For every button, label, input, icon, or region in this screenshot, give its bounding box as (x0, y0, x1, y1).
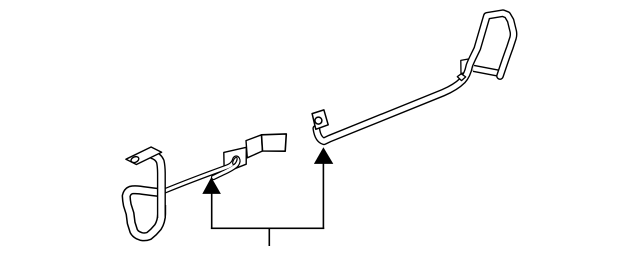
left arrow stem (211, 192, 213, 229)
eyelet hole (315, 117, 322, 124)
loop handle (black) (126, 190, 161, 237)
right arrow stem (323, 162, 325, 229)
hook slot (232, 157, 238, 165)
connector box middle face (246, 135, 263, 158)
main rod with top loop (white core) (316, 13, 513, 141)
eyelet plate (312, 110, 328, 129)
tube from flag down (white core) (152, 155, 162, 219)
tab fold flap (in front of tube) (457, 74, 465, 81)
flag oval hole (130, 156, 140, 164)
loop handle (white core) (126, 190, 161, 237)
tube from flag down (black) (152, 155, 162, 219)
loop bottom chord (black) (474, 68, 500, 73)
connector box right face (262, 134, 287, 151)
small mounting tab near bend (461, 59, 472, 74)
left arrow head (202, 177, 221, 194)
main rod with top loop (black) (316, 13, 513, 141)
cable rod with end hook (white core) (165, 158, 238, 191)
bracket center tick (269, 228, 271, 247)
cable rod with end hook (black) (165, 158, 238, 191)
loop bottom chord (white core) (474, 68, 500, 73)
bracket horizontal (211, 228, 324, 230)
right arrow head (314, 147, 333, 164)
hook plate (224, 147, 247, 173)
flag bracket (126, 147, 162, 165)
